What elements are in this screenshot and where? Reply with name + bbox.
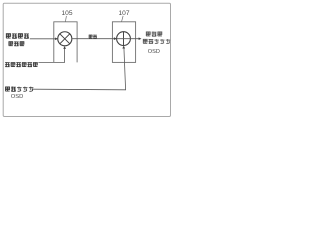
outer border frame — [3, 3, 170, 116]
leader line for 107 — [122, 16, 124, 22]
label: screen average luminance (line 1) — [6, 33, 29, 38]
output arrowhead — [139, 37, 142, 40]
svg-text:OSD: OSD — [148, 49, 160, 55]
label: screen average luminance (line 2) — [8, 41, 24, 46]
arrowhead into U105 bottom — [63, 46, 66, 49]
svg-text:107: 107 — [118, 10, 129, 17]
leader line for 105 — [65, 16, 66, 22]
arrowhead into U107 bottom — [122, 46, 125, 49]
label: bordered subtitle or OSD (line 2) — [143, 39, 170, 44]
wire: U105 output through U107 adder — [72, 38, 139, 40]
wire: average luminance input to U105 — [30, 38, 56, 40]
arrowhead into U105 left — [55, 37, 58, 40]
block box around adder 107 — [112, 22, 135, 63]
arrowhead into U107 left — [114, 37, 117, 40]
multiplier 105 — [58, 32, 72, 46]
label: correction (between blocks) — [89, 35, 97, 39]
label: luminance setting reference — [5, 62, 38, 67]
label: subtitle or OSD (bottom left, line 1) — [5, 87, 33, 92]
wire: setting value to U105 bottom — [38, 48, 64, 63]
svg-text:OSD: OSD — [11, 94, 24, 100]
adder 107 — [117, 32, 131, 46]
block box around multiplier 105 — [54, 22, 77, 63]
svg-text:105: 105 — [61, 10, 72, 17]
wire: subtitle/OSD input, bottom run up to U107 — [32, 47, 125, 89]
label: bordered subtitle or OSD (line 1) — [146, 32, 162, 37]
